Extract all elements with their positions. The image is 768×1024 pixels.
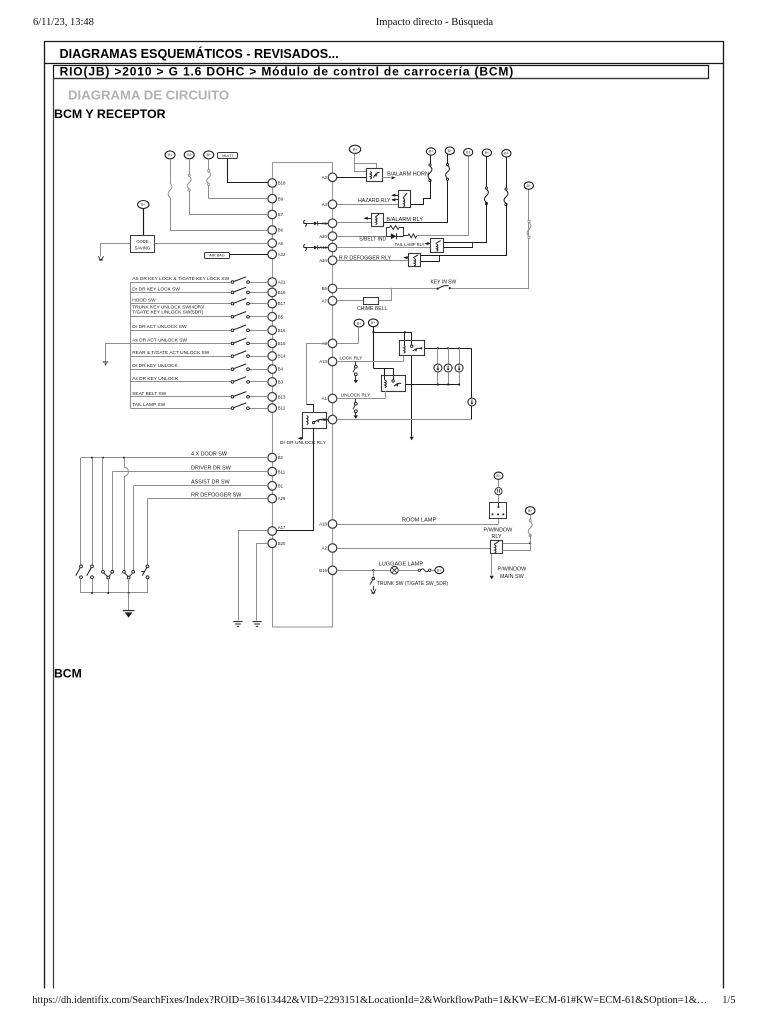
BCM pin A7 (right) <box>328 297 337 306</box>
relay Dr DR UNLOCK RLY <box>303 413 327 429</box>
connector B+ (code saving) <box>138 201 149 209</box>
svg-text:A13: A13 <box>319 359 327 364</box>
svg-text:P/WINDOW: P/WINDOW <box>484 528 514 534</box>
BCM pin B6 <box>268 226 277 235</box>
connector B+ (defogger) <box>502 150 511 157</box>
fusible link on G1 wire <box>168 183 172 198</box>
svg-text:HAZARD RLY: HAZARD RLY <box>358 198 391 204</box>
svg-text:DRIVER DR SW: DRIVER DR SW <box>191 466 232 472</box>
svg-text:B19: B19 <box>278 290 286 295</box>
svg-text:RIO(JB) >2010 > G 1.6 DOHC > M: RIO(JB) >2010 > G 1.6 DOHC > Módulo de c… <box>60 64 515 78</box>
wire A1 to unlock coil <box>337 398 386 400</box>
switch row As DR KEY UNLOCK <box>130 381 231 383</box>
wire A7 to chime bell <box>337 300 364 302</box>
wire to G1 column <box>417 157 469 236</box>
svg-text:B16: B16 <box>278 328 286 333</box>
wire G1 to B6 <box>170 159 172 183</box>
BCM pin B3 <box>268 378 277 387</box>
switch row Dr DR KEY LOCK SW <box>130 292 231 294</box>
svg-text:SAVING: SAVING <box>135 245 151 250</box>
BCM pin A15 (right) <box>328 243 337 252</box>
switch row REAR & T/GATE ACT UNLOCK SW <box>130 356 231 358</box>
svg-text:MULTI: MULTI <box>222 154 233 158</box>
BCM pin A5 (right) <box>328 219 337 228</box>
relay B/ALARM HORN <box>367 169 383 182</box>
svg-text:B+: B+ <box>448 149 452 153</box>
svg-text:AIR BAG: AIR BAG <box>209 253 224 257</box>
hazard relay left arrows <box>392 195 398 197</box>
svg-text:B17: B17 <box>278 301 286 306</box>
ground (code saving) <box>98 256 103 260</box>
svg-text:AS DR KEY LOCK & T/GATE KEY LO: AS DR KEY LOCK & T/GATE KEY LOCK SW <box>132 276 229 282</box>
svg-text:A18: A18 <box>319 522 327 527</box>
connector B+ (luggage) <box>435 567 444 574</box>
wire ASSIST DR SW (B1) <box>133 485 268 487</box>
svg-text:T/GATE KEY UNLOCK SW(5DR): T/GATE KEY UNLOCK SW(5DR) <box>132 310 203 316</box>
svg-text:LOCK RLY: LOCK RLY <box>340 355 364 360</box>
MULTI module box <box>218 153 238 159</box>
svg-text:B+: B+ <box>207 153 211 157</box>
BCM connector body <box>273 163 333 628</box>
wire horn output arrow <box>382 177 391 179</box>
switch KEY IN SW <box>437 288 439 290</box>
svg-text:Dr DR KEY UNLOCK: Dr DR KEY UNLOCK <box>132 363 178 369</box>
ground (B20) <box>252 621 261 623</box>
wire A4 to hazard relay <box>337 204 399 206</box>
connector B+ (lock rly) <box>354 319 364 327</box>
AIR BAG box <box>205 253 230 259</box>
svg-text:CODE: CODE <box>136 239 148 244</box>
connector G1 <box>165 151 175 159</box>
svg-text:A2: A2 <box>322 546 328 551</box>
door switch drop v3 <box>102 458 104 571</box>
connector B+ (left) <box>204 151 214 159</box>
wire A8 internal to Dr relay <box>307 343 329 345</box>
wire lamp to connector <box>398 570 418 572</box>
connector G2 <box>184 151 194 159</box>
svg-text:B+: B+ <box>371 321 375 325</box>
svg-text:P/WINDOW: P/WINDOW <box>498 566 528 572</box>
svg-text:BCM Y RECEPTOR: BCM Y RECEPTOR <box>54 107 166 121</box>
svg-text:A7: A7 <box>322 298 328 303</box>
wire Dr relay to A17 <box>277 429 314 531</box>
wire key in sw to B+ <box>451 190 529 289</box>
connector B+ (horn) <box>349 145 360 153</box>
svg-text:B14: B14 <box>278 354 286 359</box>
BCM pin A20 (right) <box>328 232 337 241</box>
driver transistor A13 <box>355 362 357 366</box>
door switch sw5 <box>146 565 149 568</box>
svg-text:LUGGAGE LAMP: LUGGAGE LAMP <box>379 562 424 568</box>
switch row TAIL LAMP SW <box>130 408 231 410</box>
luggage lamp bulb <box>391 567 399 575</box>
svg-text:G1: G1 <box>168 153 173 157</box>
wire CODE SAVING to ground <box>101 244 131 257</box>
BCM pin B1 <box>268 482 277 491</box>
svg-text:A17: A17 <box>278 525 286 530</box>
svg-text:ASSIST DR SW: ASSIST DR SW <box>191 480 230 486</box>
BCM pin B18 <box>268 179 277 188</box>
relay HAZARD RLY <box>399 191 411 208</box>
door switch drop v1 <box>80 458 82 565</box>
svg-text:B+: B+ <box>527 184 531 188</box>
lock coil feed <box>404 332 406 345</box>
wire b/alarm relay to B+ column <box>384 179 448 223</box>
BCM pin B4 <box>268 365 277 374</box>
svg-text:ROOM LAMP: ROOM LAMP <box>402 518 436 524</box>
door switch sw4 (double) <box>123 570 126 573</box>
svg-text:A4: A4 <box>322 202 328 207</box>
Dr relay dark jog <box>307 405 314 413</box>
connector B+ (b/alarm) <box>445 147 454 154</box>
wire A2 to p/window relay <box>337 548 491 550</box>
BCM pin B17 <box>268 299 277 308</box>
svg-text:6/11/23, 13:48: 6/11/23, 13:48 <box>33 17 94 28</box>
door switch sw3 (double) <box>102 570 105 573</box>
fusible link on B+ wire <box>207 172 211 184</box>
unlock relay feed <box>374 368 394 370</box>
svg-text:A29: A29 <box>278 496 286 501</box>
door switch drop v2 <box>92 458 94 565</box>
ROOM LAMP switch box <box>490 503 507 519</box>
switch row AS DR KEY LOCK & T/GATE KEY LOCK SW <box>130 282 231 284</box>
BCM pin A22 <box>268 250 277 259</box>
BCM pin A6 <box>268 239 277 248</box>
BCM pin B11 <box>268 467 277 476</box>
svg-text:HOOD SW: HOOD SW <box>132 298 156 304</box>
svg-text:B2: B2 <box>278 455 284 460</box>
lock common down arrow <box>411 356 413 437</box>
switch TRUNK SW <box>373 570 375 577</box>
svg-text:B9: B9 <box>278 196 284 201</box>
wire A17 to ground <box>239 531 268 621</box>
door switch sw1 <box>80 565 83 568</box>
b/alarm relay left arrow <box>365 218 372 220</box>
svg-text:B+: B+ <box>353 148 357 152</box>
svg-text:A34: A34 <box>319 258 327 263</box>
BCM pin B14 <box>268 352 277 361</box>
wire chime bell junction <box>379 289 392 301</box>
BCM pin A18 (right) <box>328 520 337 529</box>
wire B20 to ground <box>257 544 268 621</box>
tail relay arrow stub <box>426 243 431 245</box>
resistor s/belt to G1 <box>403 235 408 237</box>
svg-text:B+: B+ <box>141 203 145 207</box>
wire DRIVER DR SW (B11) <box>112 471 268 473</box>
svg-text:B+: B+ <box>504 152 508 156</box>
door switch ground bus <box>81 592 148 594</box>
BCM pin B6 (right) <box>328 284 337 293</box>
svg-text:As DR ACT UNLOCK SW: As DR ACT UNLOCK SW <box>132 337 187 343</box>
fusible link (key in feed) <box>527 222 531 236</box>
motor 4 <box>471 349 473 399</box>
door switch sw2 <box>91 565 94 568</box>
switch row TRUNK KEY UNLOCK SW(4DR)/ <box>130 316 231 318</box>
left rows bus <box>130 282 132 408</box>
svg-text:TAIL LAMP SW: TAIL LAMP SW <box>132 402 165 408</box>
wire p/window relay to main sw <box>491 554 493 576</box>
svg-text:4 X DOOR SW: 4 X DOOR SW <box>191 451 228 457</box>
wire A5 to b/alarm relay <box>337 222 371 224</box>
driver transistor A1 <box>355 399 357 403</box>
svg-text:B+: B+ <box>429 150 433 154</box>
wire B6 to key in sw <box>337 288 437 290</box>
door switch drop v7 <box>147 499 149 565</box>
svg-text:B+: B+ <box>437 568 441 572</box>
BCM pin A34 (right) <box>328 256 337 265</box>
svg-text:As DR KEY UNLOCK: As DR KEY UNLOCK <box>132 376 179 382</box>
BCM pin B20 <box>268 539 277 548</box>
svg-text:B12: B12 <box>278 406 286 411</box>
switch row HOOD SW <box>130 303 231 305</box>
svg-text:TRUNK SW (T/GATE SW_5DR): TRUNK SW (T/GATE SW_5DR) <box>377 581 449 587</box>
switch row As DR ACT UNLOCK SW <box>130 343 231 345</box>
BCM pin A3 (right) <box>328 415 337 424</box>
BCM pin B15 <box>268 339 277 348</box>
wire bus to ground <box>128 593 130 610</box>
defogger relay loop <box>421 256 440 262</box>
svg-text:RLY: RLY <box>492 534 502 540</box>
svg-text:TAIL LAMP RLY: TAIL LAMP RLY <box>395 242 425 247</box>
wire MULTI to B18 <box>228 159 268 183</box>
svg-text:DIAGRAMA DE CIRCUITO: DIAGRAMA DE CIRCUITO <box>68 88 229 103</box>
wire B+ to B9 <box>208 159 210 172</box>
connector G1 (s/belt) <box>464 149 473 156</box>
BCM pin A2 (right) <box>328 544 337 553</box>
svg-text:A22: A22 <box>278 252 286 257</box>
fusible link (p/window) <box>530 515 532 522</box>
svg-text:B4: B4 <box>278 367 284 372</box>
svg-text:SEAT BELT SW: SEAT BELT SW <box>132 391 167 397</box>
switch row Dr DR ACT UNLOCK SW <box>130 330 231 332</box>
relay TAIL LAMP RLY <box>431 239 444 253</box>
svg-text:DIAGRAMAS ESQUEMÁTICOS - REVIS: DIAGRAMAS ESQUEMÁTICOS - REVISADOS... <box>60 46 339 61</box>
svg-text:G2: G2 <box>187 153 192 157</box>
wire CODE SAVING to A6 <box>155 243 268 245</box>
BCM pin A4 (right) <box>328 200 337 209</box>
wire A8 to B+ <box>337 343 359 345</box>
svg-text:B/ALARM HORN: B/ALARM HORN <box>387 171 429 177</box>
svg-text:B5: B5 <box>278 314 284 319</box>
svg-text:B16: B16 <box>319 568 327 573</box>
switch row SEAT BELT SW <box>130 396 231 398</box>
BCM pin A17 <box>268 527 277 536</box>
wire A15 to tail lamp relay <box>337 247 431 249</box>
wire A20 to s/belt ind <box>337 236 387 238</box>
door switch drop v5 with hop <box>124 458 126 468</box>
connector B+ (tail) <box>482 149 491 156</box>
BCM pin B13 <box>268 393 277 402</box>
BCM pin A8 (right) <box>328 339 337 348</box>
connector B+ (room lamp) <box>494 472 503 479</box>
svg-text:B20: B20 <box>278 541 286 546</box>
BCM pin A29 <box>268 494 277 503</box>
relay P/WINDOW RLY <box>491 541 503 554</box>
BCM pin B19 <box>268 288 277 297</box>
svg-text:UNLOCK RLY: UNLOCK RLY <box>341 392 371 397</box>
svg-text:B13: B13 <box>278 394 286 399</box>
resistor+diode at pin A5 <box>303 220 306 226</box>
unlock relay output line <box>405 384 459 386</box>
svg-text:B+: B+ <box>357 321 361 325</box>
svg-text:KEY IN SW: KEY IN SW <box>431 280 457 286</box>
BCM pin A3 (right) <box>328 173 337 182</box>
fusible link on G2 wire <box>187 176 191 189</box>
relay LOCK RLY <box>400 341 425 356</box>
wire RR DEFOGGER SW (A29) <box>148 498 268 500</box>
relay UNLOCK RLY <box>382 376 406 392</box>
svg-text:A20: A20 <box>319 234 327 239</box>
svg-text:Dr DR ACT UNLOCK SW: Dr DR ACT UNLOCK SW <box>132 324 187 330</box>
wire 4 X DOOR SW (B2) <box>81 457 268 459</box>
motor 3 <box>459 348 461 364</box>
wire B+ feed lock/unlock <box>373 327 375 369</box>
BCM pin B2 <box>268 453 277 462</box>
connector B+ (unlock rly) <box>368 319 378 327</box>
wire B+ to hazard relay <box>430 155 432 166</box>
svg-text:A1: A1 <box>322 396 328 401</box>
relay R R DEFOGGER RLY <box>409 254 421 267</box>
svg-text:B1: B1 <box>278 483 284 488</box>
header box bottom rule <box>45 63 724 65</box>
s/belt ind diode <box>391 233 397 239</box>
svg-text:TRUNK KEY UNLOCK SW(4DR)/: TRUNK KEY UNLOCK SW(4DR)/ <box>132 305 205 311</box>
svg-text:Impacto directo - Búsqueda: Impacto directo - Búsqueda <box>376 17 494 28</box>
BCM pin B5 <box>268 312 277 321</box>
wire B+ to defogger relay <box>506 157 508 190</box>
svg-text:Dr DR KEY LOCK SW: Dr DR KEY LOCK SW <box>132 286 180 292</box>
svg-text:B11: B11 <box>278 469 286 474</box>
connector B+ (hazard) <box>426 148 435 155</box>
svg-text:BCM: BCM <box>54 667 82 681</box>
svg-text:B+: B+ <box>485 151 489 155</box>
inner content box edges <box>54 79 709 989</box>
svg-text:B6: B6 <box>278 228 284 233</box>
svg-text:CHIME BELL: CHIME BELL <box>357 306 387 312</box>
svg-text:RR DEFOGGER SW: RR DEFOGGER SW <box>191 492 242 498</box>
wire A3 to motor 4 <box>337 419 472 421</box>
wire A13 to lock coil <box>337 361 404 363</box>
BCM pin A21 <box>268 278 277 287</box>
wire AIR BAG to A22 <box>230 254 268 256</box>
wire row6 to ground <box>106 344 131 362</box>
wire G2 to B7 <box>189 159 191 176</box>
svg-text:B+: B+ <box>496 474 500 478</box>
lock relay output to motors <box>425 348 472 350</box>
svg-text:R R DEFOGGER RLY: R R DEFOGGER RLY <box>339 255 392 261</box>
BCM pin B16 <box>268 326 277 335</box>
ground (A17) <box>233 621 242 623</box>
RIO box <box>54 66 709 79</box>
tail relay jog <box>444 243 473 248</box>
fusible link (b/alarm feed) <box>447 154 449 165</box>
svg-text:G1: G1 <box>466 150 471 154</box>
BCM pin B16 (right) <box>328 566 337 575</box>
CHIME BELL resistor <box>364 298 379 305</box>
svg-text:REAR & T/GATE ACT UNLOCK SW: REAR & T/GATE ACT UNLOCK SW <box>132 350 210 356</box>
CODE SAVING box <box>131 236 155 253</box>
svg-text:B+: B+ <box>528 509 532 513</box>
svg-text:B15: B15 <box>278 341 286 346</box>
BCM pin B7 <box>268 210 277 219</box>
wire B+ to CODE SAVING <box>143 209 145 236</box>
ground (door switches) <box>123 610 135 612</box>
defogger relay arrow stub <box>405 257 409 259</box>
svg-text:B6: B6 <box>322 286 328 291</box>
door switch drop v6 <box>133 486 135 571</box>
BCM pin A1 (right) <box>328 394 337 403</box>
wire A3 to horn relay <box>337 177 367 179</box>
connector B+ (key in) <box>524 182 533 189</box>
BCM pin A13 (right) <box>328 357 337 366</box>
svg-text:1/5: 1/5 <box>722 995 735 1006</box>
wire B+ to tail relay <box>486 156 488 189</box>
relay B/ALARM RLY <box>372 214 384 227</box>
ground (row6) <box>103 361 109 363</box>
svg-text:A6: A6 <box>278 241 284 246</box>
svg-text:https://dh.identifix.com/Searc: https://dh.identifix.com/SearchFixes/Ind… <box>32 995 707 1006</box>
motor 1 <box>437 348 439 364</box>
room lamp bulb <box>498 495 500 503</box>
svg-text:A3: A3 <box>322 175 328 180</box>
svg-text:B3: B3 <box>278 380 284 385</box>
svg-text:B7: B7 <box>278 212 284 217</box>
svg-text:Dr DR UNLOCK RLY: Dr DR UNLOCK RLY <box>280 440 327 446</box>
s/belt ind resistor loop <box>387 228 390 237</box>
wire B16 to luggage lamp <box>337 570 391 572</box>
wire A34 to defogger relay <box>337 260 408 262</box>
svg-text:A21: A21 <box>278 280 286 285</box>
svg-text:MAIN SW: MAIN SW <box>500 574 525 580</box>
door switch drop v4 <box>112 472 114 571</box>
wire A18 to room lamp <box>337 524 499 526</box>
resistor+diode at pin A15 <box>303 244 306 250</box>
svg-text:B18: B18 <box>278 181 286 186</box>
Dr relay left stub arrow <box>300 429 303 439</box>
p/window relay to B+ wires <box>503 543 530 545</box>
wire B+ to horn relay <box>355 154 377 169</box>
switch row Dr DR KEY UNLOCK <box>130 369 231 371</box>
motor 2 <box>448 348 450 364</box>
svg-text:S/BELT IND: S/BELT IND <box>359 237 386 243</box>
BCM pin B9 <box>268 194 277 203</box>
connector B+ (p/window) <box>525 507 535 515</box>
BCM pin B12 <box>268 404 277 413</box>
